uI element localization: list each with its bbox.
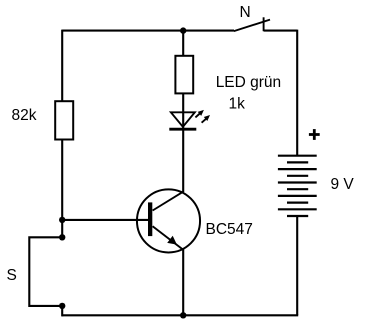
wire top rail right of switch [264,30,298,32]
wire emitter vertical [182,248,184,315]
svg-text:S: S [7,267,17,284]
LED light arrow 1 [195,110,204,118]
switch N contact tick [263,17,265,31]
resistor R2 1k body [175,56,193,94]
node emitter bottom junction dot [180,312,186,318]
wire left rail below resistor [61,140,63,238]
wire right rail below battery [296,216,298,315]
wire base lead [62,219,148,221]
LED D1 triangle [171,112,195,127]
wire right rail down to battery [296,30,298,156]
node top junction dot [180,27,186,33]
transistor Q1 emitter arrowhead [167,236,177,245]
transistor Q1 base bar [148,202,152,236]
transistor Q1 emitter diagonal [153,226,184,250]
switch S bracket wire [29,237,62,306]
svg-text:BC547: BC547 [206,221,253,238]
wire top rail left of switch [62,30,234,32]
svg-text:9 V: 9 V [331,176,355,193]
svg-text:82k: 82k [12,107,37,124]
transistor Q1 body circle [137,189,200,252]
label + plus sign [309,129,320,140]
transistor Q1 collector diagonal [153,192,184,211]
node base junction dot [59,217,65,223]
svg-text:N: N [240,4,251,21]
LED light arrow 2 [202,115,210,123]
node sensor top dot [59,234,65,240]
switch N blade [234,20,270,32]
wire left rail upper [61,30,63,102]
node sensor bottom dot [59,303,65,309]
battery BT1 plates [278,156,317,216]
svg-text:1k: 1k [229,96,246,113]
svg-text:LED grün: LED grün [216,74,281,91]
wire sensor node to bottom rail [61,306,63,317]
resistor R1 82k body [55,101,73,139]
LED D1 cathode bar [169,128,196,131]
wire bottom rail [62,314,298,316]
wire middle branch from top node to resistor [182,31,184,56]
wire middle branch through LED to collector [182,93,184,192]
